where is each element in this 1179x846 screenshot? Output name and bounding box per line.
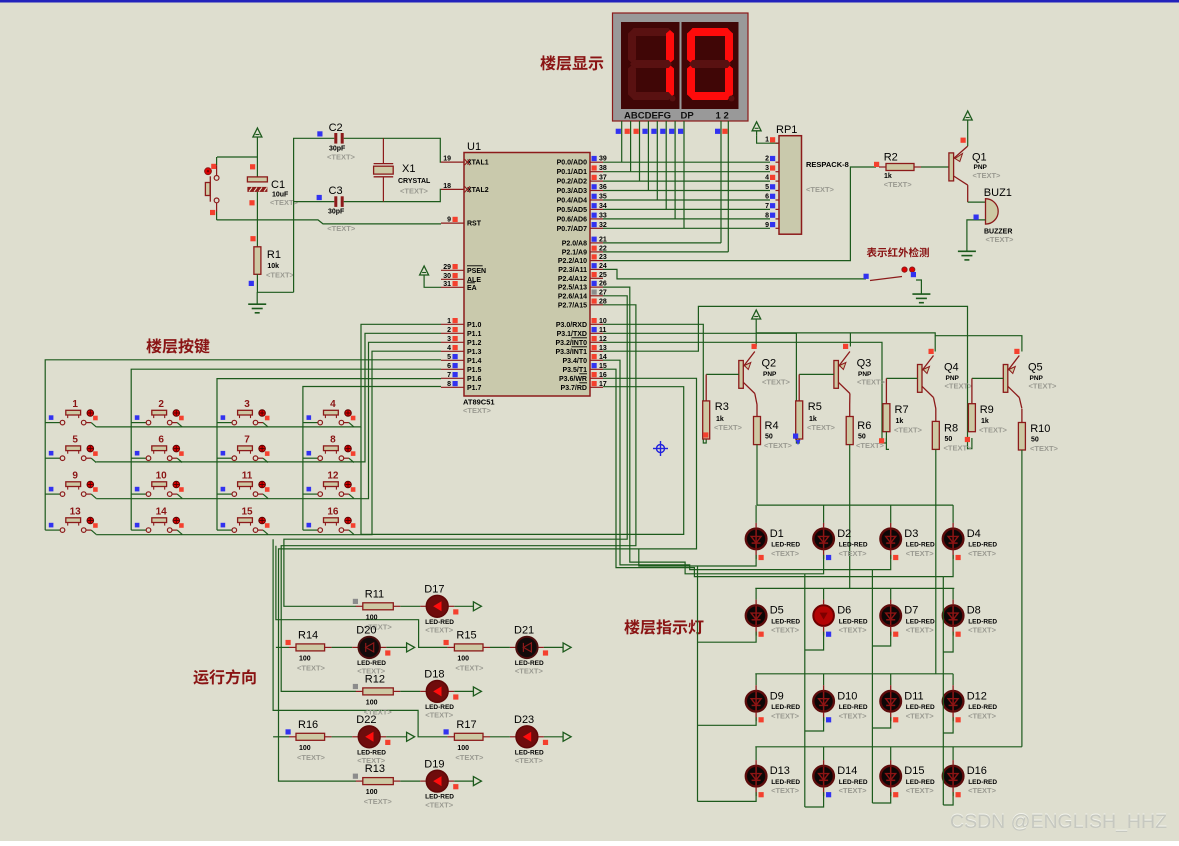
svg-text:1: 1 [716, 111, 722, 122]
svg-text:LED-RED: LED-RED [968, 542, 997, 549]
svg-text:<TEXT>: <TEXT> [771, 549, 800, 558]
svg-text:6: 6 [447, 363, 451, 370]
svg-text:1: 1 [72, 399, 78, 410]
svg-text:D3: D3 [904, 528, 918, 540]
svg-text:<TEXT>: <TEXT> [425, 626, 454, 635]
svg-text:RP1: RP1 [776, 124, 797, 136]
svg-text:5: 5 [765, 184, 769, 191]
svg-text:Q5: Q5 [1028, 362, 1043, 374]
svg-text:22: 22 [599, 245, 607, 252]
svg-text:<TEXT>: <TEXT> [945, 382, 974, 391]
svg-text:D9: D9 [770, 690, 784, 702]
svg-text:<TEXT>: <TEXT> [1030, 444, 1059, 453]
svg-text:<TEXT>: <TEXT> [762, 378, 791, 387]
svg-text:18: 18 [443, 183, 451, 190]
svg-text:P0.1/AD1: P0.1/AD1 [557, 169, 587, 176]
svg-text:<TEXT>: <TEXT> [327, 224, 356, 233]
svg-text:D8: D8 [967, 605, 981, 617]
svg-text:C3: C3 [329, 185, 343, 197]
svg-text:P3.5/T1: P3.5/T1 [562, 367, 587, 374]
svg-text:<TEXT>: <TEXT> [906, 786, 935, 795]
svg-text:25: 25 [599, 272, 607, 279]
svg-text:P0.3/AD3: P0.3/AD3 [557, 188, 587, 195]
svg-text:R16: R16 [298, 719, 318, 731]
svg-text:D7: D7 [904, 605, 918, 617]
svg-text:LED-RED: LED-RED [771, 779, 800, 786]
svg-text:<TEXT>: <TEXT> [425, 711, 454, 720]
svg-text:D22: D22 [356, 714, 376, 726]
svg-text:D21: D21 [514, 625, 534, 637]
svg-text:50: 50 [858, 434, 866, 441]
svg-text:P1.3: P1.3 [467, 349, 482, 356]
svg-text:LED-RED: LED-RED [906, 779, 935, 786]
svg-text:<TEXT>: <TEXT> [400, 187, 429, 196]
svg-text:3: 3 [765, 165, 769, 172]
svg-text:9: 9 [765, 222, 769, 229]
svg-text:P1.0: P1.0 [467, 322, 482, 329]
svg-text:<TEXT>: <TEXT> [857, 378, 886, 387]
svg-text:D12: D12 [967, 690, 987, 702]
svg-text:1k: 1k [716, 416, 724, 423]
svg-text:<TEXT>: <TEXT> [839, 549, 868, 558]
svg-text:<TEXT>: <TEXT> [973, 171, 1002, 180]
svg-text:1k: 1k [981, 418, 989, 425]
svg-text:<TEXT>: <TEXT> [455, 663, 484, 672]
svg-text:D23: D23 [514, 714, 534, 726]
svg-text:P2.5/A13: P2.5/A13 [558, 285, 587, 292]
svg-text:CRYSTAL: CRYSTAL [398, 178, 431, 185]
svg-text:LED-RED: LED-RED [839, 779, 868, 786]
svg-text:<TEXT>: <TEXT> [944, 444, 973, 453]
svg-text:<TEXT>: <TEXT> [771, 786, 800, 795]
svg-text:RST: RST [467, 221, 482, 228]
svg-text:D18: D18 [424, 669, 444, 681]
svg-text:LED-RED: LED-RED [771, 704, 800, 711]
svg-text:R15: R15 [456, 629, 476, 641]
svg-text:<TEXT>: <TEXT> [968, 626, 997, 635]
svg-text:D20: D20 [356, 625, 376, 637]
svg-text:P0.0/AD0: P0.0/AD0 [557, 160, 587, 167]
svg-text:1k: 1k [896, 418, 904, 425]
svg-text:50: 50 [765, 434, 773, 441]
svg-text:C2: C2 [329, 122, 343, 134]
svg-text:R1: R1 [267, 249, 281, 261]
svg-text:100: 100 [457, 655, 469, 662]
svg-text:LED-RED: LED-RED [906, 704, 935, 711]
svg-text:D11: D11 [904, 690, 923, 702]
svg-text:Q2: Q2 [762, 358, 777, 370]
svg-text:P1.1: P1.1 [467, 331, 482, 338]
svg-text:2: 2 [724, 111, 729, 122]
svg-text:D19: D19 [424, 758, 444, 770]
svg-text:P2.1/A9: P2.1/A9 [562, 249, 587, 256]
svg-text:D17: D17 [424, 584, 444, 596]
svg-text:6: 6 [765, 194, 769, 201]
svg-text:P3.4/T0: P3.4/T0 [562, 358, 587, 365]
svg-text:14: 14 [156, 507, 168, 518]
svg-text:3: 3 [447, 336, 451, 343]
svg-text:100: 100 [366, 699, 378, 706]
svg-text:8: 8 [447, 381, 451, 388]
svg-text:29: 29 [443, 264, 451, 271]
svg-text:R3: R3 [715, 401, 729, 413]
svg-text:P1.5: P1.5 [467, 367, 482, 374]
svg-text:Q1: Q1 [972, 152, 987, 164]
svg-text:1: 1 [765, 137, 769, 144]
svg-text:<TEXT>: <TEXT> [906, 711, 935, 720]
svg-text:4: 4 [447, 345, 451, 352]
svg-text:P3.3/INT1: P3.3/INT1 [555, 349, 587, 356]
svg-text:<TEXT>: <TEXT> [839, 711, 868, 720]
svg-text:U1: U1 [467, 141, 481, 153]
svg-text:8: 8 [765, 212, 769, 219]
svg-text:2: 2 [765, 156, 769, 163]
svg-text:P1.2: P1.2 [467, 340, 482, 347]
svg-text:D10: D10 [837, 690, 857, 702]
svg-text:P2.4/A12: P2.4/A12 [558, 276, 587, 283]
svg-text:P0.2/AD2: P0.2/AD2 [557, 179, 587, 186]
svg-text:31: 31 [443, 281, 451, 288]
svg-text:P3.2/INT0: P3.2/INT0 [555, 340, 587, 347]
svg-text:7: 7 [447, 372, 451, 379]
svg-text:D15: D15 [904, 765, 924, 777]
svg-text:7: 7 [765, 203, 769, 210]
svg-text:P2.0/A8: P2.0/A8 [562, 240, 587, 247]
svg-text:R13: R13 [365, 763, 385, 775]
svg-text:R14: R14 [298, 629, 318, 641]
svg-text:<TEXT>: <TEXT> [894, 426, 923, 435]
svg-text:<TEXT>: <TEXT> [906, 626, 935, 635]
svg-text:<TEXT>: <TEXT> [714, 423, 743, 432]
svg-text:R7: R7 [895, 404, 909, 416]
svg-text:100: 100 [366, 614, 378, 621]
svg-text:P2.7/A15: P2.7/A15 [558, 302, 587, 309]
svg-text:D1: D1 [770, 528, 784, 540]
svg-text:P1.7: P1.7 [467, 385, 482, 392]
svg-text:<TEXT>: <TEXT> [515, 756, 544, 765]
svg-text:R17: R17 [456, 719, 476, 731]
svg-text:<TEXT>: <TEXT> [839, 786, 868, 795]
svg-text:50: 50 [1031, 437, 1039, 444]
svg-text:D13: D13 [770, 765, 790, 777]
svg-text:X1: X1 [402, 163, 415, 175]
svg-text:P3.0/RXD: P3.0/RXD [556, 322, 587, 329]
svg-text:R4: R4 [765, 420, 779, 432]
svg-text:D4: D4 [967, 528, 981, 540]
svg-text:DP: DP [681, 111, 695, 122]
svg-text:P1.4: P1.4 [467, 358, 482, 365]
svg-text:6: 6 [158, 435, 164, 446]
svg-text:D6: D6 [837, 605, 851, 617]
svg-text:5: 5 [72, 435, 78, 446]
svg-text:LED-RED: LED-RED [906, 542, 935, 549]
svg-text:<TEXT>: <TEXT> [327, 153, 356, 162]
svg-text:<TEXT>: <TEXT> [968, 549, 997, 558]
svg-text:<TEXT>: <TEXT> [968, 711, 997, 720]
svg-text:11: 11 [242, 471, 253, 482]
svg-text:P0.6/AD6: P0.6/AD6 [557, 216, 587, 223]
svg-text:100: 100 [299, 655, 311, 662]
svg-text:<TEXT>: <TEXT> [771, 626, 800, 635]
svg-text:P1.6: P1.6 [467, 376, 482, 383]
svg-text:LED-RED: LED-RED [771, 618, 800, 625]
svg-text:<TEXT>: <TEXT> [266, 271, 295, 280]
svg-text:10k: 10k [267, 263, 279, 270]
svg-text:<TEXT>: <TEXT> [968, 786, 997, 795]
svg-text:8: 8 [330, 435, 336, 446]
svg-text:30pF: 30pF [329, 146, 346, 153]
svg-text:<TEXT>: <TEXT> [884, 180, 913, 189]
svg-text:<TEXT>: <TEXT> [986, 235, 1015, 244]
svg-text:Q3: Q3 [857, 358, 872, 370]
svg-text:9: 9 [72, 471, 78, 482]
svg-text:30pF: 30pF [328, 209, 345, 216]
svg-text:<TEXT>: <TEXT> [979, 426, 1008, 435]
svg-text:<TEXT>: <TEXT> [764, 441, 793, 450]
svg-text:PSEN: PSEN [467, 268, 486, 275]
svg-text:D16: D16 [967, 765, 987, 777]
svg-text:<TEXT>: <TEXT> [1029, 382, 1058, 391]
svg-text:P3.1/TXD: P3.1/TXD [557, 331, 587, 338]
svg-text:<TEXT>: <TEXT> [839, 626, 868, 635]
svg-text:100: 100 [299, 745, 311, 752]
svg-text:XTAL1: XTAL1 [467, 160, 489, 167]
svg-text:50: 50 [945, 436, 953, 443]
svg-text:R8: R8 [944, 423, 958, 435]
svg-text:P0.7/AD7: P0.7/AD7 [557, 226, 587, 233]
svg-text:P3.6/WR: P3.6/WR [559, 376, 587, 383]
svg-text:<TEXT>: <TEXT> [906, 549, 935, 558]
svg-text:P2.3/A11: P2.3/A11 [558, 267, 587, 274]
svg-text:R6: R6 [857, 420, 871, 432]
svg-text:<TEXT>: <TEXT> [463, 406, 492, 415]
svg-text:7: 7 [244, 435, 250, 446]
svg-text:ABCDEFG: ABCDEFG [624, 111, 671, 122]
svg-text:LED-RED: LED-RED [968, 618, 997, 625]
svg-text:15: 15 [241, 507, 253, 518]
svg-text:LED-RED: LED-RED [906, 618, 935, 625]
svg-text:4: 4 [330, 399, 336, 410]
svg-text:LED-RED: LED-RED [968, 779, 997, 786]
svg-text:LED-RED: LED-RED [839, 704, 868, 711]
svg-text:<TEXT>: <TEXT> [515, 667, 544, 676]
svg-text:<TEXT>: <TEXT> [270, 198, 299, 207]
svg-text:D2: D2 [837, 528, 851, 540]
svg-text:XTAL2: XTAL2 [467, 187, 489, 194]
svg-text:3: 3 [244, 399, 250, 410]
svg-text:P0.5/AD5: P0.5/AD5 [557, 207, 587, 214]
svg-text:<TEXT>: <TEXT> [297, 663, 326, 672]
svg-text:1k: 1k [809, 416, 817, 423]
svg-text:LED-RED: LED-RED [771, 542, 800, 549]
svg-text:BUZ1: BUZ1 [984, 187, 1012, 199]
svg-text:R5: R5 [808, 401, 822, 413]
svg-text:100: 100 [366, 789, 378, 796]
svg-text:D5: D5 [770, 605, 784, 617]
svg-text:5: 5 [447, 354, 451, 361]
svg-text:Q4: Q4 [944, 362, 959, 374]
svg-text:R2: R2 [884, 152, 898, 164]
svg-text:EA: EA [467, 285, 477, 292]
svg-text:R9: R9 [980, 404, 994, 416]
svg-text:P2.2/A10: P2.2/A10 [558, 258, 587, 265]
svg-text:<TEXT>: <TEXT> [807, 423, 836, 432]
svg-text:<TEXT>: <TEXT> [364, 797, 393, 806]
svg-text:12: 12 [327, 471, 339, 482]
svg-text:100: 100 [457, 745, 469, 752]
svg-text:10: 10 [156, 471, 168, 482]
svg-text:4: 4 [765, 175, 769, 182]
svg-text:P0.4/AD4: P0.4/AD4 [557, 198, 587, 205]
svg-text:PNP: PNP [974, 164, 988, 171]
svg-text:LED-RED: LED-RED [839, 542, 868, 549]
svg-text:21: 21 [599, 236, 607, 243]
svg-text:C1: C1 [271, 179, 285, 191]
svg-text:CSDN @ENGLISH_HHZ: CSDN @ENGLISH_HHZ [950, 811, 1167, 833]
svg-text:2: 2 [158, 399, 164, 410]
svg-text:<TEXT>: <TEXT> [455, 753, 484, 762]
svg-text:13: 13 [70, 507, 82, 518]
svg-text:D14: D14 [837, 765, 857, 777]
svg-text:1: 1 [447, 318, 451, 325]
svg-text:R12: R12 [365, 673, 385, 685]
svg-text:2: 2 [447, 327, 451, 334]
svg-text:9: 9 [447, 217, 451, 224]
svg-text:30: 30 [443, 273, 451, 280]
svg-text:<TEXT>: <TEXT> [806, 185, 835, 194]
svg-text:<TEXT>: <TEXT> [771, 711, 800, 720]
svg-text:LED-RED: LED-RED [968, 704, 997, 711]
svg-text:RESPACK-8: RESPACK-8 [806, 160, 849, 169]
svg-text:19: 19 [443, 156, 451, 163]
svg-text:P2.6/A14: P2.6/A14 [558, 293, 587, 300]
svg-text:R10: R10 [1030, 423, 1050, 435]
svg-text:<TEXT>: <TEXT> [425, 800, 454, 809]
svg-text:16: 16 [327, 507, 339, 518]
svg-text:<TEXT>: <TEXT> [297, 753, 326, 762]
svg-text:P3.7/RD: P3.7/RD [561, 385, 587, 392]
svg-text:LED-RED: LED-RED [839, 618, 868, 625]
svg-text:R11: R11 [365, 588, 384, 600]
